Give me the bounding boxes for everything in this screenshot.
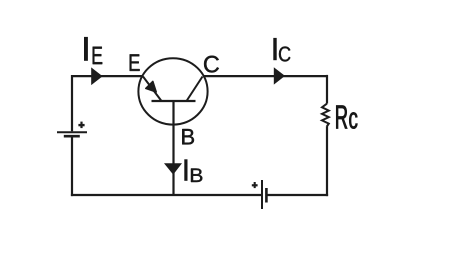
- label C (collector terminal): [204, 56, 219, 73]
- wire top-left (emitter feed): [72, 75, 143, 77]
- label IB : subscript B: [191, 169, 202, 183]
- label RC : R: [336, 106, 347, 129]
- current arrow IE: [91, 67, 102, 85]
- resistor RC zigzag: [322, 104, 329, 127]
- transistor Q1 body circle: [138, 58, 207, 124]
- label IC : subscript C: [279, 47, 290, 62]
- battery V2 plus sign: [252, 184, 258, 186]
- label IB : I stem: [184, 159, 187, 181]
- label E (emitter terminal): [130, 54, 140, 71]
- label IC : I stem: [273, 38, 276, 60]
- battery V1 (left) short plate: [64, 135, 80, 138]
- label IE : subscript E: [93, 47, 103, 64]
- label RC : c: [349, 112, 357, 128]
- wire base lead: [172, 101, 174, 195]
- transistor Q1 base bar: [152, 100, 196, 102]
- label IE : I stem: [84, 37, 88, 61]
- current arrow IB: [164, 163, 182, 174]
- wire left upper: [71, 75, 73, 131]
- label B (base terminal): [182, 129, 194, 144]
- transistor Q1 collector line: [187, 77, 203, 102]
- wire right lower: [326, 126, 328, 196]
- wire left lower: [71, 137, 73, 196]
- wire bottom-right: [267, 194, 328, 196]
- current arrow IC: [274, 67, 285, 84]
- battery V2 (bottom) long plate: [261, 180, 263, 209]
- transistor Q1 emitter arrow (PNP, pointing to base): [146, 81, 156, 92]
- wire right upper: [326, 75, 328, 104]
- battery V1 plus sign: [78, 124, 84, 126]
- wire bottom-left: [71, 194, 261, 196]
- battery V1 (left) long plate: [57, 131, 87, 133]
- battery V2 (bottom) short plate: [265, 188, 268, 203]
- transistor Q1 emitter line: [143, 77, 162, 102]
- wire top-right (collector feed): [203, 75, 327, 77]
